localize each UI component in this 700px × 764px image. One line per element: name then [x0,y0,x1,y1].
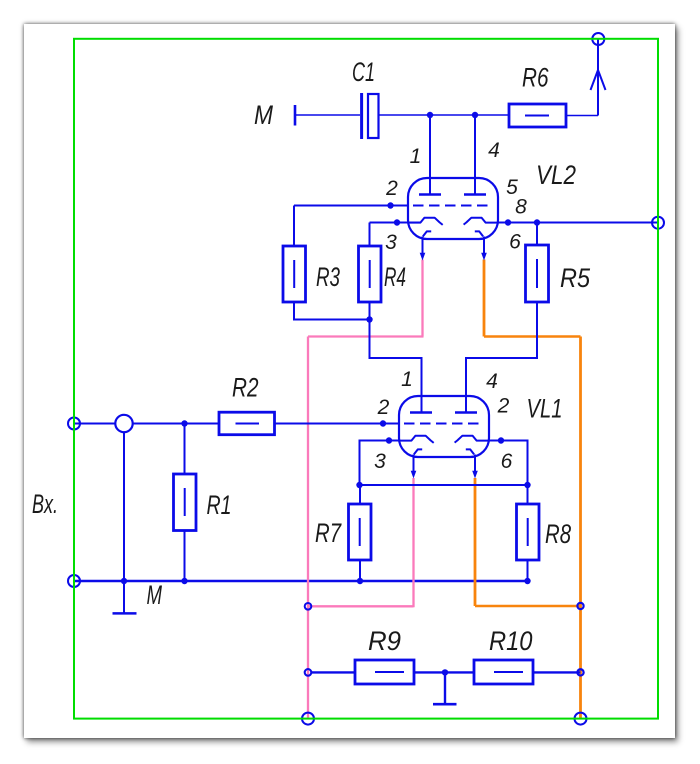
wire VL1 cathode pin 3 to R7 [360,441,400,486]
resistor R8 [517,504,540,560]
svg-text:R8: R8 [545,519,571,549]
node R8 top junction [524,482,530,488]
terminal circle bottom left [302,713,314,725]
terminal tick M (top left open end) [294,105,297,126]
node R3/R4 junction [366,316,372,322]
wire pink: vertical run x=308 to bottom terminal [307,337,309,719]
resistor R5 [526,245,549,302]
tube VL1 (double triode) [399,396,489,479]
node R7 top junction [356,482,362,488]
resistor R9 [355,660,414,684]
wire R1 top lead [184,424,186,475]
cathode VL1 triode 2 [455,436,489,443]
svg-text:M: M [254,100,273,130]
node ground rail / R8 [524,578,530,584]
wire orange: horizontal run y=336.5 [484,335,581,338]
wire VL2 anode 4 lead [474,115,476,194]
wire R7 top lead [359,485,361,504]
wire R6 to supply corner [566,115,598,117]
grid VL1 (dashed) [404,423,484,425]
heater hook VL1 triode 1 [414,449,422,454]
svg-text:R10: R10 [489,626,533,656]
ground (R9/R10) [433,703,457,706]
tube VL2 (double triode) [408,178,498,261]
wire pink: horizontal run y=336.5 [308,335,424,337]
svg-text:R1: R1 [207,490,232,520]
svg-text:8: 8 [515,196,527,219]
svg-text:R3: R3 [316,262,340,292]
svg-text:3: 3 [374,450,386,473]
terminal circle bottom right [575,713,587,725]
ground (input) [113,612,137,615]
anode plate VL1 pin 1 [410,411,432,413]
svg-text:6: 6 [509,231,521,254]
wire supply riser [597,39,599,116]
svg-text:M: M [147,580,163,610]
wire orange: vertical run x=580.5 to bottom terminal [579,337,582,719]
wire VL1 cathode pin 6 to R8 [489,441,528,486]
arrowhead VL2 cathode 2 [481,253,487,261]
resistor R1 [174,474,197,531]
svg-text:1: 1 [410,145,422,168]
svg-text:2: 2 [377,396,390,419]
heater hook VL1 triode 2 [466,449,474,454]
wire orange: VL2 cathode 6 drop [483,260,486,337]
resistor R4 [359,246,382,302]
wire VL2 pin 8 output to right terminal [498,222,658,224]
wire R2 to VL1 grid pin 2 [275,423,400,425]
cathode lead VL1 triode 2 [474,455,476,472]
junction circle pink net / R9 rail [305,669,312,676]
wire VL2 grid pin 2 to R3 [294,205,408,207]
supply arrow [591,70,606,90]
resistor R7 [349,504,372,560]
terminal circle Bx top [68,418,80,430]
svg-text:VL2: VL2 [536,160,576,190]
node anode VL2 pin 1 junction [427,112,433,118]
anode plate VL2 pin 4 [464,193,486,195]
svg-text:C1: C1 [352,57,375,87]
wire C1 to R6 [379,114,510,116]
node R5 tap [534,219,540,225]
resistor R10 [474,660,533,684]
wire input rail Bx [74,423,219,425]
wire M tick to C1 [296,114,360,116]
capacitor C1 [362,93,379,139]
terminal circle output (right) [652,217,664,229]
wire VL2 anode 1 lead [429,115,431,194]
wire VL2 cathode pin 3 to R4 [370,222,422,224]
node anode VL2 pin 4 junction [472,112,478,118]
svg-text:4: 4 [488,139,500,162]
svg-text:1: 1 [401,368,413,391]
connector circle input [115,415,132,432]
resistor R2 [219,412,275,435]
heater hook VL2 triode 1 [423,231,431,236]
wire R4 bottom to VL1 anode 1 [370,302,422,413]
svg-text:R5: R5 [560,263,591,293]
wire pink: horizontal run y=606 [308,605,414,607]
node on VL2 pin 3 wire [394,219,400,225]
svg-text:4: 4 [486,370,498,393]
node ground rail / ground drop [121,578,127,584]
envelope VL1 [399,396,489,457]
node on VL1 pin 3 wire [386,437,392,443]
cathode VL2 triode 2 [464,218,498,225]
cathode lead VL2 triode 2 [483,237,485,254]
wire R10 to orange net [533,671,581,673]
cathode VL2 triode 1 [408,218,443,225]
wire R7-R8 rail [360,484,528,486]
wire R5 top lead [536,223,538,246]
svg-text:Bx.: Bx. [32,489,58,519]
wire R4 top lead [369,223,371,247]
arrowhead VL1 cathode 2 [472,471,478,479]
wire orange: VL1 cathode 6 drop [474,478,477,606]
wire R1 bottom lead [184,531,186,582]
svg-text:6: 6 [501,450,513,473]
envelope VL2 [408,178,498,239]
node on VL1 pin 6 wire [498,437,504,443]
heater hook VL2 triode 2 [475,231,483,236]
svg-text:2: 2 [497,395,510,418]
anode plate VL1 pin 4 [455,411,477,413]
cathode lead VL1 triode 1 [413,455,415,472]
svg-text:2: 2 [385,177,398,200]
wire orange: horizontal run y=606 [475,605,581,608]
wire pink: VL1 cathode 3 drop [412,478,414,607]
wire ground drop R9/R10 [444,672,446,703]
cathode VL1 triode 1 [399,436,434,443]
node R9/R10 ground tap [442,669,448,675]
cathode lead VL2 triode 1 [422,237,424,254]
node on VL1 pin 2 wire [380,420,386,426]
node on output wire [505,219,511,225]
svg-text:R4: R4 [384,262,406,292]
wire pink: VL2 cathode 1 drop [421,260,423,337]
svg-text:VL1: VL1 [527,394,563,424]
node ground rail / R1 [181,578,187,584]
resistor R6 [509,104,566,127]
svg-text:3: 3 [385,231,397,254]
wire pink net to R9 [311,671,355,673]
grid VL2 (dashed) [413,205,493,207]
arrowhead VL2 cathode 1 [420,253,426,261]
junction circle orange net [577,603,583,609]
wire R8 top lead [527,485,529,504]
terminal circle supply (top) [592,33,604,45]
node on VL2 pin 2 wire [387,202,393,208]
wire M ground rail (bottom, y=581) [74,580,528,583]
svg-text:R2: R2 [232,373,259,403]
anode plate VL2 pin 1 [419,193,441,195]
wire ground drop from input connector [123,432,125,613]
wire R5 bottom to VL1 anode 4 [466,302,537,413]
wire R7 bottom lead [359,560,361,581]
junction circle pink net [305,603,312,610]
node R1 tap [181,420,187,426]
wire R3 top lead [293,206,295,247]
svg-text:R7: R7 [315,518,342,548]
terminal circle Bx bottom [68,575,80,587]
arrowhead VL1 cathode 1 [411,471,417,479]
wire R3 bottom to R4 [294,302,370,320]
node ground rail / R7 [357,578,363,584]
junction circle orange net / R10 rail [577,669,583,675]
wire R8 bottom lead [527,560,529,581]
wire R9 to R10 [414,671,474,673]
svg-text:R9: R9 [368,626,401,656]
svg-text:R6: R6 [522,63,549,93]
resistor R3 [283,246,306,302]
